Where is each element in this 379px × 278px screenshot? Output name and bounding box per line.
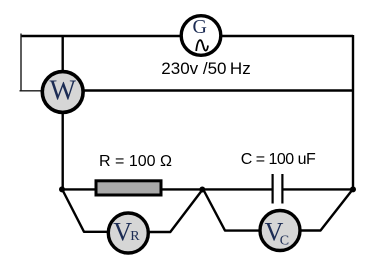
generator rating label 230v /50 Hz <box>161 59 250 78</box>
wire node B to voltmeter VC (left diagonal + horizontal) <box>203 189 262 231</box>
generator G (AC source circle) <box>181 16 221 56</box>
capacitor C (two plates) <box>273 174 283 204</box>
wire top bus from left corner to right corner <box>21 35 353 37</box>
wire right vertical bus <box>352 35 354 189</box>
voltmeter VR <box>108 213 148 253</box>
voltmeter VC <box>260 211 300 251</box>
resistor value label R = 100 Ω <box>99 153 172 170</box>
wire wattmeter voltage-coil loop (thin) <box>20 34 46 92</box>
node B junction dot <box>199 187 205 193</box>
resistor R (body) <box>96 181 161 195</box>
wattmeter W <box>42 72 83 113</box>
wire bottom row left segment to capacitor left plate <box>62 188 272 190</box>
svg-text:W: W <box>49 76 76 107</box>
wire wattmeter row to right bus <box>62 89 353 91</box>
svg-text:R = 100 Ω: R = 100 Ω <box>99 153 172 170</box>
wire voltmeter VR to node B (horizontal + right diagonal) <box>145 189 203 232</box>
wire bottom row right segment from capacitor right plate <box>284 188 354 190</box>
svg-text:C = 100 uF: C = 100 uF <box>241 151 316 168</box>
node C junction dot <box>350 186 356 192</box>
capacitor value label C = 100 uF <box>241 151 316 168</box>
node A junction dot <box>59 186 65 192</box>
svg-text:230v /50 Hz: 230v /50 Hz <box>161 59 250 78</box>
svg-text:C: C <box>280 234 289 249</box>
wire vertical through wattmeter W <box>62 36 64 189</box>
wire voltmeter VC to node C (horizontal + right diagonal) <box>297 189 353 231</box>
svg-text:G: G <box>192 16 206 38</box>
wire node A to voltmeter VR (left diagonal + horizontal) <box>62 189 112 232</box>
svg-text:R: R <box>130 229 140 244</box>
